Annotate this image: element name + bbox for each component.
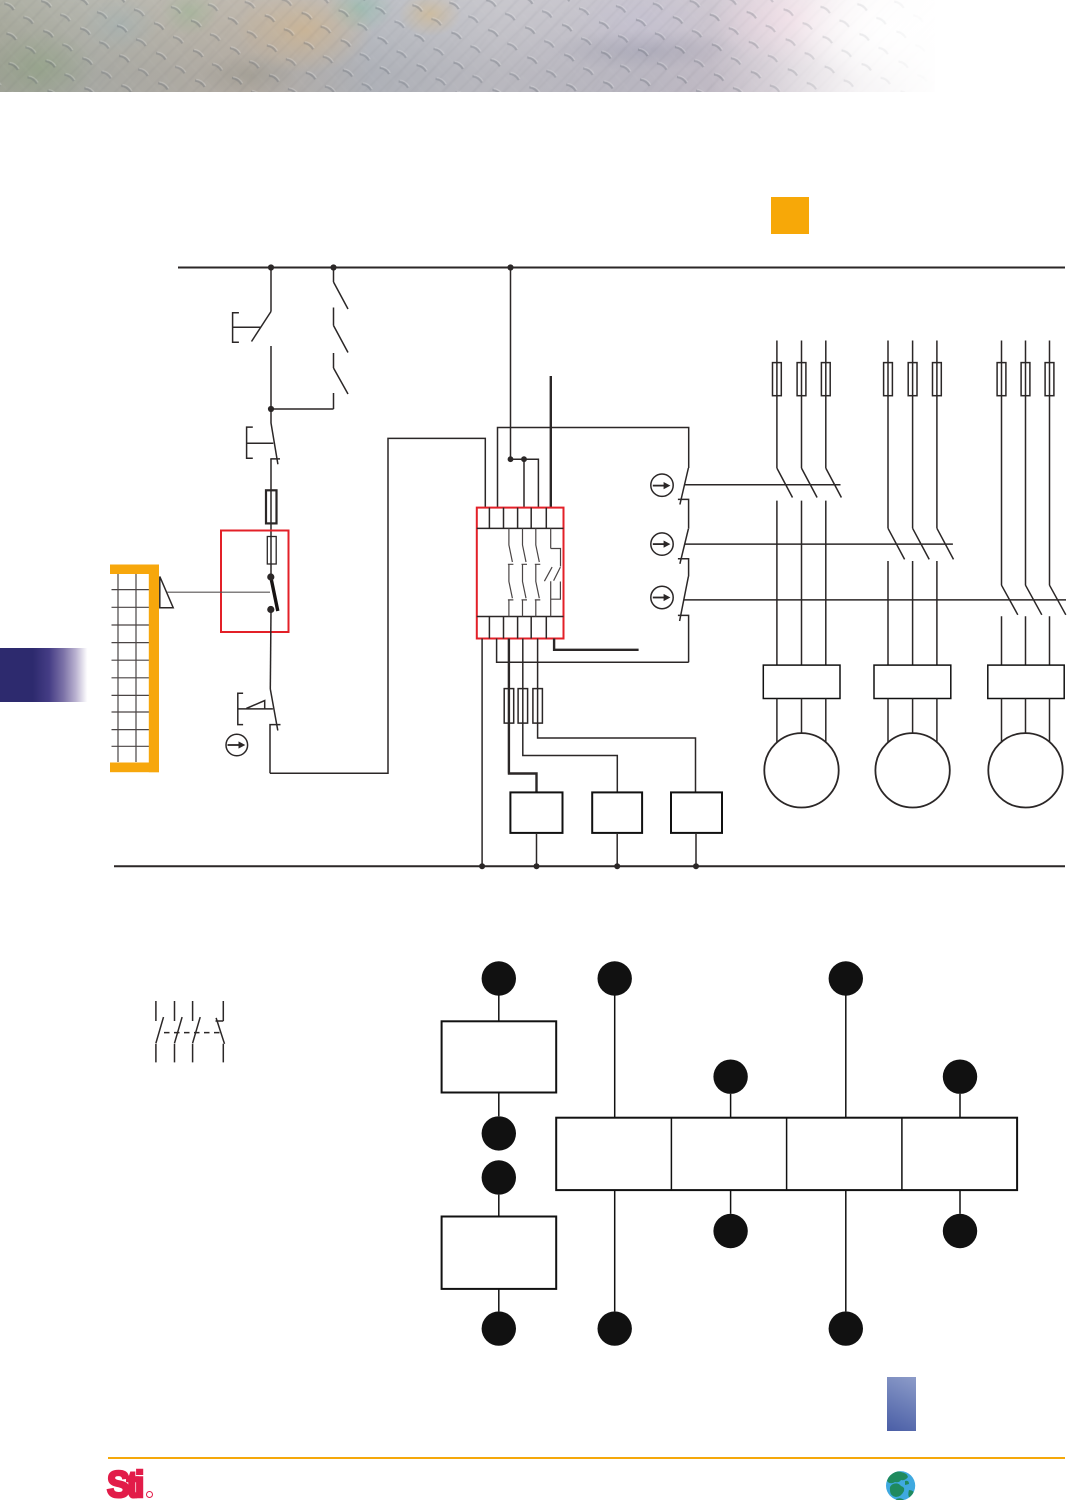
wire: K2a to motor branch 2 xyxy=(685,543,953,545)
node: bus dot at K3 xyxy=(693,863,699,869)
flow node circle 9 xyxy=(829,961,863,995)
flow node circle 12 xyxy=(943,1214,977,1248)
flow link 5 xyxy=(614,995,616,1118)
K block internal auxiliary contact xyxy=(544,528,560,616)
control module K block red outline xyxy=(477,508,564,639)
orange legend square xyxy=(771,197,809,234)
flow box 1 xyxy=(442,1021,557,1092)
node: bus dot at terminal 1 wire xyxy=(479,863,485,869)
wire: bus to contact S0 xyxy=(270,268,272,312)
bottom neutral bus N xyxy=(114,865,1065,867)
safety fence grid xyxy=(112,574,150,762)
flow link 12 xyxy=(959,1190,961,1214)
K block top terminal strip xyxy=(477,508,564,529)
K block internal contact column 3 xyxy=(535,528,541,616)
motor M3 xyxy=(988,733,1062,807)
wire: S2 to control loop xyxy=(270,438,485,773)
flow node circle 3 xyxy=(482,1160,516,1194)
wire: K2 to bottom bus xyxy=(616,833,618,866)
wire: block to auxiliary chain top xyxy=(498,428,689,508)
arrow circle symbol 1 xyxy=(651,474,673,496)
wire: K3 to bottom bus xyxy=(695,833,697,866)
K block bottom terminal strip xyxy=(477,617,564,639)
flow node circle 10 xyxy=(829,1311,863,1345)
wire: F4 to coil K2 xyxy=(523,723,618,792)
fuse F5 xyxy=(533,689,543,724)
arrow circle symbol 2 xyxy=(651,533,673,555)
gate interlock flag triangle xyxy=(160,577,173,608)
auxiliary chain contact K3a xyxy=(678,577,689,663)
thick wire: block terminal 3 to fuse F3 xyxy=(508,639,510,724)
flow box 2 xyxy=(442,1217,557,1289)
fuse F3 xyxy=(504,689,514,724)
indigo side tab xyxy=(0,648,91,702)
switch Q1 three-pole disconnect, pole 1 xyxy=(334,268,349,310)
fuse F4 xyxy=(518,689,528,724)
wire: block terminal 2 return from chain xyxy=(497,639,689,663)
flow node circle 2 xyxy=(482,1116,516,1150)
wires overload to motor M2 xyxy=(888,699,937,743)
wire: K3a to motor branch 3 xyxy=(684,599,1066,601)
overload relay F8 xyxy=(988,665,1064,698)
banner diamond-plate texture xyxy=(0,0,935,92)
blue corner tab xyxy=(887,1377,917,1431)
flow link 4 xyxy=(498,1289,500,1312)
coil K1 xyxy=(510,792,562,833)
flow link 2 xyxy=(498,1093,500,1117)
header photo banner xyxy=(0,0,935,92)
overload relay F6 xyxy=(763,665,840,698)
flow node circle 11 xyxy=(943,1060,977,1094)
flow node circle 5 xyxy=(598,961,632,995)
flow link 6 xyxy=(614,1190,616,1311)
contact S2 (position switch NC) xyxy=(270,689,281,773)
safety fence orange frame xyxy=(110,565,159,773)
flow link 7 xyxy=(730,1094,732,1118)
wires overload to motor M3 xyxy=(1002,699,1050,743)
K block internal contact column 2 xyxy=(522,528,528,616)
four-pole contact legend symbol xyxy=(156,1001,225,1062)
node: bus junction A xyxy=(268,264,274,270)
actuator bracket of S2 with wedge xyxy=(238,693,273,724)
flow table row xyxy=(556,1118,1017,1190)
contact S0 emergency stop (NO) xyxy=(252,312,272,342)
flow link 8 xyxy=(730,1190,732,1214)
overload relay F7 xyxy=(874,665,951,698)
fuse F1 xyxy=(266,490,277,523)
flow node circle 1 xyxy=(482,961,516,995)
red highlight box around F2 and Q2 xyxy=(221,531,289,633)
node: drop junction dot xyxy=(521,456,527,462)
knife switch Q2 blade xyxy=(271,577,278,611)
wire: K1a to motor branch 1 xyxy=(685,484,841,486)
wire: K1 to bottom bus xyxy=(536,833,538,866)
wire: F5 to coil K3 xyxy=(538,723,696,792)
flow link 10 xyxy=(845,1190,847,1311)
node: bus dot at K1 xyxy=(534,863,540,869)
coil K2 xyxy=(592,792,642,833)
switch Q1 pole 2 xyxy=(334,308,349,353)
node: bus junction B xyxy=(330,264,336,270)
wire: bus drop at node C xyxy=(511,268,539,508)
node: drop corner dot xyxy=(508,456,514,462)
flow node circle 4 xyxy=(482,1311,516,1345)
wire: S1 to fuse F1 xyxy=(270,459,272,577)
node: bus dot at K2 xyxy=(614,863,620,869)
flow link 9 xyxy=(845,995,847,1118)
actuation direction circle with arrow xyxy=(226,734,248,756)
knife switch Q2 lower terminal dot xyxy=(267,606,274,613)
fuse F2 xyxy=(267,537,276,565)
thick feeder stub into block xyxy=(550,376,552,508)
Sprecher+Schuh logo xyxy=(107,1464,141,1500)
switch Q1 pole 3 xyxy=(334,353,349,409)
fuse group 3 xyxy=(997,363,1054,396)
coil K3 xyxy=(671,792,722,833)
flow link 11 xyxy=(959,1094,961,1118)
motor M2 xyxy=(875,733,949,807)
flow node circle 8 xyxy=(713,1214,747,1248)
motor branch 3 phase wires xyxy=(1002,341,1066,666)
flow node circle 6 xyxy=(598,1311,632,1345)
footer orange rule xyxy=(108,1457,1066,1460)
motor M1 xyxy=(764,733,838,807)
fuse group 1 xyxy=(773,363,831,396)
wire: knife switch to contact S2 xyxy=(269,611,272,689)
contact S1 (breaker) xyxy=(270,409,280,464)
wires overload to motor M1 xyxy=(777,699,826,743)
wire: node D to Q1 bottom xyxy=(271,408,334,410)
knife switch Q2 upper terminal dot xyxy=(267,573,274,580)
actuator bracket of S0 xyxy=(233,313,261,343)
wire: block terminal 4 to fuse F4 xyxy=(522,639,524,724)
arrow circle symbol 3 xyxy=(651,586,673,608)
globe icon xyxy=(886,1471,915,1500)
gray link line fence to knife switch xyxy=(167,591,270,593)
wire: block terminal 5 to fuse F5 xyxy=(537,639,539,724)
thick stub wire from block terminal 6 xyxy=(554,639,639,650)
auxiliary chain contact K2a xyxy=(678,529,689,577)
K block internal contact column 1 xyxy=(508,528,514,616)
fuse group 2 xyxy=(884,363,942,396)
flow link 1 xyxy=(498,995,500,1021)
flow node circle 7 xyxy=(713,1060,747,1094)
wire: block terminal 1 to bottom bus xyxy=(481,639,483,867)
wire: S0 to node D xyxy=(270,346,272,409)
node D junction dot xyxy=(268,406,274,412)
node: bus junction C xyxy=(507,264,513,270)
supply bus L1 xyxy=(178,267,1065,269)
thick wire: F3 to coil K1 xyxy=(508,723,537,792)
auxiliary chain contact K1a xyxy=(678,468,689,529)
actuator bracket of S1 xyxy=(247,427,274,458)
motor branch 2 phase wires xyxy=(888,341,954,666)
motor branch 1 phase wires xyxy=(777,341,842,666)
flow link 3 xyxy=(498,1195,500,1217)
